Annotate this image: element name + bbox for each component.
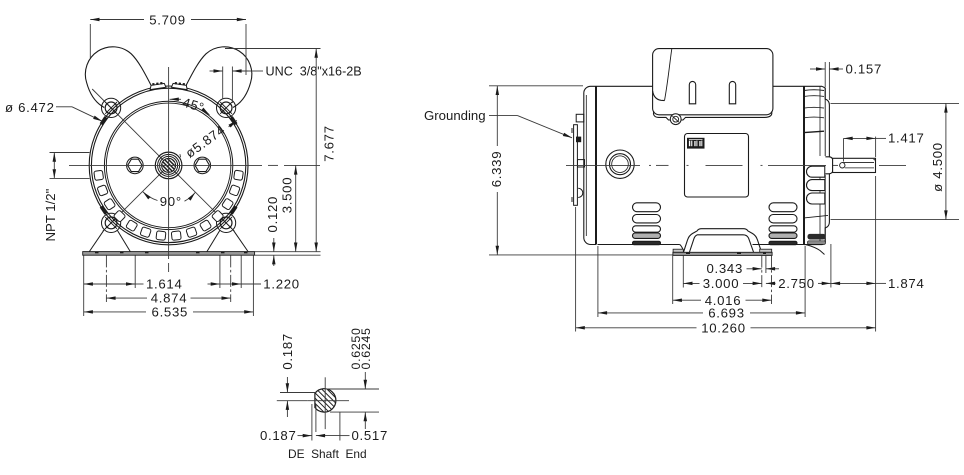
svg-text:1.614: 1.614 <box>146 277 183 292</box>
svg-text:UNC 3/8"x16-2B: UNC 3/8"x16-2B <box>266 65 362 79</box>
svg-text:5.709: 5.709 <box>149 13 186 28</box>
side view: base plate <box>673 252 772 255</box>
side view: body louvers right group <box>769 203 797 245</box>
svg-text:90°: 90° <box>160 194 182 209</box>
dim UNC 3/8x16-2B leader <box>210 67 264 104</box>
endplate fins <box>804 90 828 218</box>
svg-text:NPT 1/2": NPT 1/2" <box>43 188 58 241</box>
side view: foot <box>680 229 762 253</box>
front view: shaft boss circles <box>155 152 182 179</box>
svg-text:4.874: 4.874 <box>151 291 188 306</box>
svg-text:1.874: 1.874 <box>888 276 925 291</box>
front view: lifting ears <box>85 47 151 108</box>
front bottom extension lines <box>84 255 254 316</box>
svg-text:2.750: 2.750 <box>778 276 815 291</box>
conduit box cover screw <box>670 114 681 125</box>
svg-text:0.120: 0.120 <box>265 196 280 233</box>
dim 0.157 <box>810 62 843 100</box>
side view: rear grounding plate <box>572 114 585 205</box>
dim 2.750 <box>766 282 831 284</box>
endplate dark bottom vents <box>808 234 826 240</box>
front view: clamp bolt bosses with cross holes <box>102 98 121 117</box>
dim angle 45 <box>170 99 210 115</box>
svg-text:0.187: 0.187 <box>280 333 295 370</box>
front view: motor face outer rim <box>89 86 248 245</box>
dim 6.693 <box>598 312 805 314</box>
side view: stator shell <box>596 86 822 244</box>
front view: mounting feet legs <box>89 230 248 251</box>
dim 4.874 <box>106 297 230 299</box>
dim 1.874 <box>831 282 886 284</box>
front view: through-bolt hex heads <box>127 157 144 174</box>
dim 3.500 <box>295 165 297 251</box>
endplate vent slots <box>807 166 825 204</box>
dim dia 4.500 <box>831 103 960 219</box>
svg-text:ø5.874: ø5.874 <box>183 122 228 161</box>
dim 6.339 <box>489 86 673 255</box>
side view: conduit box <box>653 49 773 120</box>
side view: rear endplate lip <box>584 86 596 244</box>
front view: dark gasket bars on rim <box>101 117 236 214</box>
dim 5.709 <box>90 20 246 76</box>
front view: base plate <box>83 252 255 256</box>
front view: top rim tabs <box>150 83 188 89</box>
svg-text:7.677: 7.677 <box>322 125 337 162</box>
svg-text:0.517: 0.517 <box>352 428 389 443</box>
dim 6.535 <box>84 311 254 313</box>
svg-text:6.693: 6.693 <box>708 306 745 321</box>
detail dim 0.187 (flat height) <box>277 377 317 417</box>
svg-text:3.000: 3.000 <box>703 276 740 291</box>
dim 1.220 <box>208 283 262 285</box>
front view: center diagonals to clamp bolts <box>92 89 234 231</box>
front view: vent slots ring <box>94 170 244 240</box>
nameplate logo chip <box>687 138 705 149</box>
svg-text:6.535: 6.535 <box>152 305 189 320</box>
dim NPT 1/2 <box>50 153 90 179</box>
svg-text:6.339: 6.339 <box>489 151 504 188</box>
dim 7.677 <box>225 49 321 252</box>
dim 0.120 <box>255 238 321 266</box>
dim 10.260 <box>576 327 876 329</box>
dim 1.417 <box>844 137 887 162</box>
side view: nameplate <box>685 134 749 198</box>
side view: base plate pads <box>673 249 683 252</box>
side view: shaft <box>833 158 876 172</box>
svg-text:ø 6.472: ø 6.472 <box>5 100 55 115</box>
dim angle 90 <box>143 192 195 202</box>
side view: drain boss circles <box>606 150 634 178</box>
detail dim 0.6250/0.6245 <box>326 372 379 429</box>
side view: centerline <box>566 164 906 166</box>
svg-text:DE Shaft End: DE Shaft End <box>288 447 367 461</box>
conduit box knockout slots <box>689 81 735 103</box>
svg-text:1.220: 1.220 <box>263 277 300 292</box>
side view: shaft collar <box>825 157 832 174</box>
svg-text:45°: 45° <box>181 95 206 116</box>
svg-text:0.6245: 0.6245 <box>359 327 373 369</box>
svg-text:ø 4.500: ø 4.500 <box>930 142 945 192</box>
detail bottom dims 0.187 and 0.517 <box>298 404 350 441</box>
dim 0.343 <box>747 268 780 270</box>
svg-text:1.417: 1.417 <box>888 131 925 146</box>
detail: DE shaft end section <box>315 389 336 412</box>
svg-text:0.157: 0.157 <box>846 61 883 76</box>
shaft keyway <box>840 163 845 168</box>
svg-text:Grounding: Grounding <box>424 108 486 123</box>
grounding screw <box>576 137 581 143</box>
side bottom extension lines <box>576 176 876 332</box>
front view: centerlines <box>69 67 320 272</box>
dim 4.016 <box>673 299 772 301</box>
side view: body louvers left group <box>633 203 661 245</box>
detail crosshair <box>308 377 349 429</box>
svg-text:0.343: 0.343 <box>707 261 744 276</box>
dim 1.614 <box>84 283 144 285</box>
svg-text:3.500: 3.500 <box>280 177 295 214</box>
svg-text:0.187: 0.187 <box>260 428 297 443</box>
side view: front endplate <box>804 86 829 244</box>
dim 3.000 <box>683 282 762 284</box>
svg-text:10.260: 10.260 <box>701 320 746 335</box>
